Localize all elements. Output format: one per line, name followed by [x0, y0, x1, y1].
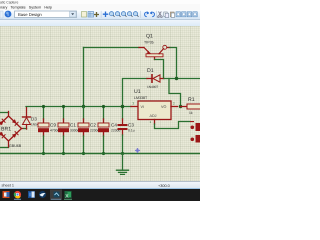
- schematic svg: [0, 0, 200, 200]
- taskbar active app: [50, 190, 62, 201]
- capacitor C3: [118, 105, 128, 155]
- capacitor C4: [98, 105, 109, 155]
- ground: [117, 154, 129, 175]
- help orb icon: [5, 11, 12, 18]
- undo redo: [145, 12, 149, 16]
- diode D1: [147, 75, 164, 82]
- svg-text:sheet 1: sheet 1: [2, 184, 14, 188]
- diode D3: [23, 107, 31, 129]
- wire riser x=83 to Q1 rail: [83, 48, 85, 107]
- taskbar icon 1: [3, 191, 10, 198]
- wire Q1 collector to junction: [170, 48, 177, 79]
- taskbar icon green: [64, 191, 72, 200]
- node D1 bus junction: [121, 105, 124, 108]
- combobox "Base Design": [15, 11, 77, 18]
- bottom svg: [0, 0, 200, 200]
- wire jog down to VO node: [169, 79, 181, 107]
- wire bridge+ to D3: [24, 128, 27, 131]
- wire ADJ to pot: [155, 122, 191, 129]
- resistor R1: [181, 104, 201, 109]
- wire D1 right to screen edge: [164, 78, 200, 80]
- top bus wire: [26, 106, 131, 108]
- transistor Q1: [139, 45, 170, 59]
- pan + zoom icons: [103, 12, 109, 18]
- taskbar icon 3: [28, 191, 35, 198]
- wire AC input bottom from bridge: [0, 147, 9, 149]
- bottom bus wire: [0, 153, 200, 155]
- partial button at left edge: [0, 11, 3, 18]
- block edit icons: [176, 12, 197, 17]
- small toolbar icons group 1: [82, 12, 87, 18]
- wire AC input top to bridge: [0, 112, 9, 114]
- origin marker: [135, 148, 140, 153]
- capacitor C2: [78, 107, 89, 156]
- taskbar icon chrome: [14, 191, 21, 200]
- regulator U1: [131, 101, 178, 124]
- capacitor C1: [58, 105, 69, 155]
- node VO junction: [179, 105, 182, 108]
- wire D1 left segment to bus: [123, 79, 148, 107]
- potentiometer RV1 (cut at edge): [190, 121, 200, 143]
- wire Q1 base down: [155, 60, 164, 79]
- node collector/D1 junction: [175, 77, 178, 80]
- node bus/riser junction: [82, 105, 85, 108]
- svg-text:+300.0: +300.0: [158, 184, 170, 188]
- wire Q1 emitter rail: [84, 47, 140, 49]
- toolbar widgets: [0, 0, 200, 27]
- cut copy paste: [159, 12, 162, 17]
- capacitor C9: [38, 105, 49, 155]
- taskbar icon 4: [39, 191, 46, 198]
- bridge rectifier BR1: [0, 112, 24, 148]
